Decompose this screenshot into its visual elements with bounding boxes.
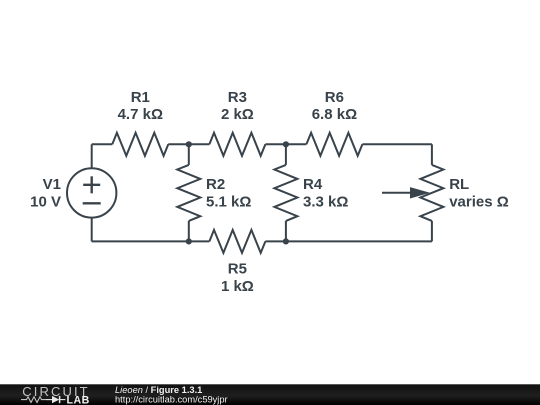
resistor R5	[209, 230, 265, 253]
node D junction dot (bottom, R5/R4)	[283, 238, 289, 244]
svg-text:R5: R5	[228, 260, 247, 277]
node A junction dot (R1/R3/R2)	[186, 141, 192, 147]
wire top rail R3-to-R6	[265, 143, 306, 145]
wire top-left vertical (V1 top to top rail)	[91, 144, 93, 168]
wire top rail R1-to-R3	[168, 143, 209, 145]
svg-text:2 kΩ: 2 kΩ	[221, 106, 254, 123]
resistor R1	[112, 133, 168, 156]
wire bottom-left vertical (bottom rail to V1 bottom)	[91, 218, 93, 242]
wire R2 bottom lead	[188, 221, 190, 242]
CircuitLab logo diode	[46, 396, 65, 403]
svg-text:RL: RL	[449, 176, 469, 193]
wire R4 bottom lead	[285, 221, 287, 242]
svg-text:LAB: LAB	[67, 394, 90, 405]
svg-text:V1: V1	[43, 176, 61, 193]
footer bar	[0, 384, 540, 405]
wire bottom rail right segment	[265, 240, 432, 242]
svg-text:http://circuitlab.com/c59yjpr: http://circuitlab.com/c59yjpr	[115, 394, 228, 404]
wire right vertical bottom lead of RL	[431, 221, 433, 242]
voltage source V1	[67, 168, 116, 217]
svg-text:Lieoen / Figure 1.3.1: Lieoen / Figure 1.3.1	[115, 385, 202, 395]
resistor R4	[274, 165, 297, 221]
RL wiper arrow	[382, 187, 430, 198]
node B junction dot (R3/R6/R4)	[283, 141, 289, 147]
node C junction dot (bottom, R2/R5)	[186, 238, 192, 244]
CircuitLab logo resistor zigzag	[21, 397, 46, 403]
svg-text:R4: R4	[303, 176, 323, 193]
svg-text:R3: R3	[228, 89, 247, 106]
svg-text:4.7 kΩ: 4.7 kΩ	[118, 106, 163, 123]
svg-text:varies Ω: varies Ω	[449, 194, 509, 211]
svg-text:R6: R6	[325, 89, 344, 106]
wire bottom rail left segment	[92, 240, 210, 242]
V1 plus sign	[83, 176, 100, 193]
svg-text:6.8 kΩ: 6.8 kΩ	[312, 106, 357, 123]
wire top rail R6-to-right corner	[362, 143, 432, 145]
svg-text:3.3 kΩ: 3.3 kΩ	[303, 194, 348, 211]
wire right vertical top lead of RL	[431, 144, 433, 165]
V1 minus sign	[83, 202, 101, 204]
svg-text:1 kΩ: 1 kΩ	[221, 278, 254, 295]
svg-text:R2: R2	[206, 176, 225, 193]
resistor R6	[306, 133, 362, 156]
wire R4 top lead	[285, 144, 287, 165]
wire top rail V1-to-R1	[92, 143, 113, 145]
resistor R2	[177, 165, 200, 221]
resistor RL (variable load)	[420, 165, 443, 221]
svg-text:R1: R1	[131, 89, 150, 106]
wire R2 top lead	[188, 144, 190, 165]
svg-text:5.1 kΩ: 5.1 kΩ	[206, 194, 251, 211]
svg-text:10 V: 10 V	[30, 194, 61, 211]
resistor R3	[209, 133, 265, 156]
